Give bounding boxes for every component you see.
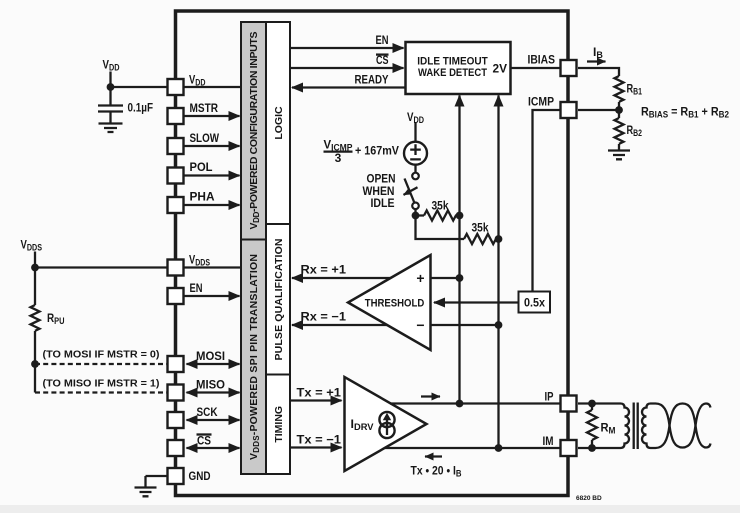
svg-text:IM: IM [543, 434, 554, 448]
svg-text:VDDS-POWERED SPI PIN TRANSLATI: VDDS-POWERED SPI PIN TRANSLATION [248, 254, 261, 460]
svg-text:(TO MISO IF MSTR = 1): (TO MISO IF MSTR = 1) [43, 378, 160, 390]
svg-text:3: 3 [335, 151, 342, 165]
svg-text:6820 BD: 6820 BD [576, 495, 602, 502]
svg-text:2V: 2V [493, 62, 508, 76]
svg-text:ICMP: ICMP [528, 95, 554, 109]
svg-text:+ 167mV: + 167mV [355, 144, 399, 158]
svg-text:POL: POL [190, 160, 213, 174]
svg-text:(TO MOSI IF MSTR = 0): (TO MOSI IF MSTR = 0) [43, 349, 160, 361]
svg-text:35k: 35k [432, 201, 450, 213]
svg-text:WAKE DETECT: WAKE DETECT [418, 67, 487, 79]
svg-text:0.1µF: 0.1µF [128, 101, 154, 115]
svg-text:IP: IP [545, 390, 554, 404]
svg-text:WHEN: WHEN [363, 186, 395, 198]
svg-text:READY: READY [355, 75, 389, 87]
svg-text:GND: GND [189, 469, 211, 483]
svg-text:SLOW: SLOW [190, 131, 220, 145]
svg-text:THRESHOLD: THRESHOLD [365, 298, 425, 310]
svg-text:SCK: SCK [197, 405, 218, 419]
svg-text:IBIAS: IBIAS [528, 53, 556, 67]
svg-text:VDD-POWERED CONFIGURATION INPU: VDD-POWERED CONFIGURATION INPUTS [248, 32, 261, 230]
svg-text:OPEN: OPEN [367, 174, 396, 186]
svg-text:−: − [416, 317, 424, 333]
svg-text:IDLE: IDLE [371, 198, 395, 210]
svg-text:MISO: MISO [196, 378, 225, 392]
svg-text:0.5x: 0.5x [524, 298, 546, 310]
svg-text:35k: 35k [472, 223, 490, 235]
svg-text:IDLE TIMEOUT: IDLE TIMEOUT [417, 56, 488, 68]
svg-text:TIMING: TIMING [273, 406, 285, 443]
svg-text:EN: EN [376, 35, 389, 47]
svg-text:EN: EN [190, 281, 203, 295]
svg-text:Rx = −1: Rx = −1 [301, 310, 347, 324]
svg-text:MSTR: MSTR [190, 101, 219, 115]
svg-text:Tx = −1: Tx = −1 [297, 433, 342, 447]
svg-text:MOSI: MOSI [196, 349, 225, 363]
svg-text:PHA: PHA [190, 190, 215, 204]
svg-text:CS: CS [376, 55, 389, 67]
svg-text:LOGIC: LOGIC [273, 106, 285, 140]
svg-text:Tx • 20 • IB: Tx • 20 • IB [411, 464, 462, 479]
svg-text:+: + [416, 270, 424, 286]
svg-text:PULSE QUALIFICATION: PULSE QUALIFICATION [273, 239, 285, 361]
svg-text:Tx = +1: Tx = +1 [297, 386, 342, 400]
svg-text:Rx = +1: Rx = +1 [301, 263, 347, 277]
